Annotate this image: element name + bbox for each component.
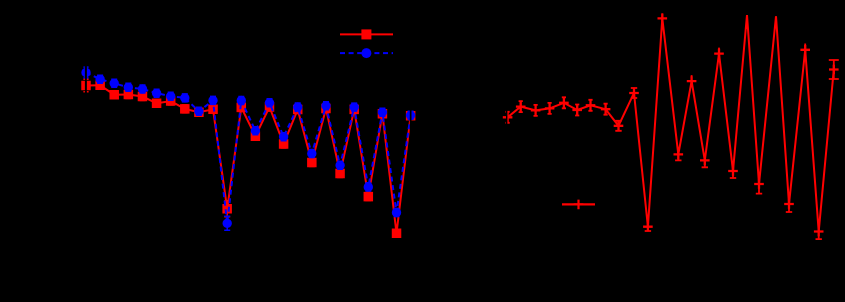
left plot: red square markers — [81, 81, 415, 238]
left plot: red series error bars — [83, 79, 413, 237]
right plot: plus markers — [503, 14, 839, 237]
left legend: red square marker — [361, 29, 371, 39]
right legend: entry line — [562, 203, 595, 205]
left plot: red solid line — [86, 85, 411, 233]
left plot: left axis (black, splits first markers) — [85, 14, 87, 258]
left legend: red entry line — [340, 33, 393, 35]
right plot: left axis (black, splits first marker) — [506, 14, 508, 258]
left legend: blue circle marker — [361, 48, 371, 58]
left plot: blue dashed line — [86, 73, 411, 224]
left plot: blue series error bars — [83, 67, 413, 230]
left plot: blue circle markers — [81, 68, 415, 228]
right plot: red solid line — [508, 15, 834, 231]
right plot: error bars — [506, 13, 839, 239]
left plot: right axis (black, splits last markers) — [410, 14, 412, 258]
left legend: blue dashed entry line — [340, 52, 393, 54]
right legend: plus marker — [574, 200, 584, 210]
